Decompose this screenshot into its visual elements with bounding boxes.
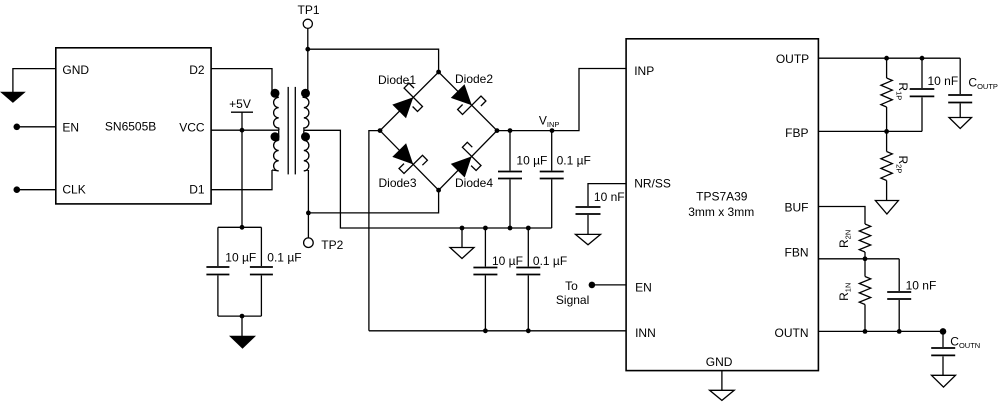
node bypass bottom junction [240, 314, 245, 319]
wire FBP rail [818, 130, 922, 132]
test point TP2 [304, 238, 344, 252]
svg-text:10 nF: 10 nF [594, 190, 625, 204]
svg-text:EN: EN [635, 281, 652, 295]
capacitor 10 uF (VINP to GND) [498, 131, 547, 228]
node OUTP junction 2 [920, 56, 925, 61]
node EN input terminal [13, 124, 20, 131]
wire NR/SS to cap [588, 184, 626, 206]
node CLK input terminal [13, 186, 20, 193]
wire GND pin stub [721, 371, 723, 390]
wire OUTN rail [818, 330, 943, 332]
svg-text:GND: GND [62, 63, 89, 77]
capacitor 0.1 uF (SN6505B bypass) [250, 227, 302, 316]
svg-text:To: To [565, 279, 578, 293]
transformer T1 core [287, 87, 289, 174]
svg-text:TP2: TP2 [321, 238, 343, 252]
wire bridge diamond edges [380, 72, 497, 190]
resistor R1P [881, 58, 910, 131]
node ground rail junction 4 [526, 226, 531, 231]
svg-text:SN6505B: SN6505B [105, 119, 156, 133]
node bypass rail junction [240, 225, 245, 230]
capacitor 0.1 uF (VINP to GND) [540, 131, 591, 228]
svg-text:VCC: VCC [179, 121, 205, 135]
node bridge bottom corner [436, 188, 441, 193]
wire BUF to R2N [818, 207, 865, 225]
capacitor 10 nF (FBN) [887, 259, 936, 332]
wire TP1 down to secondary top [307, 28, 309, 94]
svg-text:3mm x 3mm: 3mm x 3mm [688, 205, 754, 219]
node FBN junction [863, 256, 868, 261]
svg-text:FBN: FBN [785, 246, 809, 260]
node bridge top corner [436, 70, 441, 75]
resistor R2N [837, 224, 871, 259]
svg-text:Diode2: Diode2 [455, 72, 493, 86]
ground (signal) at NR/SS cap [576, 234, 601, 244]
test point TP1 [298, 3, 320, 29]
svg-text:0.1 µF: 0.1 µF [533, 254, 567, 268]
power +5V symbol [229, 97, 253, 130]
node ground rail junction 2 [483, 226, 488, 231]
svg-text:INP: INP [634, 64, 654, 78]
wire to bypass ground [241, 316, 243, 336]
resistor R2P [881, 131, 910, 200]
capacitor 10 uF (SN6505B bypass) [206, 227, 256, 316]
svg-text:Diode1: Diode1 [378, 73, 416, 87]
wire OUTP rail [818, 57, 960, 59]
node ground rail junction 1 [460, 226, 465, 231]
resistor R1N [837, 259, 871, 332]
svg-text:GND: GND [706, 355, 733, 369]
ground (signal) at TPS7A39 GND [710, 390, 735, 400]
svg-text:EN: EN [62, 121, 79, 135]
ground (power arrow) below bypass caps [229, 336, 256, 349]
node INN rail junction 2 [526, 328, 531, 333]
node EN terminal [589, 282, 596, 289]
wire secondary center tap to ground rail [304, 130, 462, 228]
ground (signal) at COUTP [949, 118, 972, 129]
node TP1 junction [305, 47, 310, 52]
node VINP [539, 113, 560, 128]
wire GND pin to ground [13, 69, 56, 92]
svg-text:D2: D2 [189, 63, 205, 77]
node FBP junction [884, 129, 889, 134]
svg-text:Diode3: Diode3 [379, 176, 417, 190]
op-amp U2 TPS7A39 box [626, 39, 818, 371]
wire CLK input stub [17, 189, 56, 191]
svg-text:10 µF: 10 µF [225, 250, 256, 264]
svg-text:INN: INN [635, 326, 656, 340]
ground (signal) at R2P [875, 201, 898, 215]
transformer T1 secondary winding [301, 89, 310, 171]
op-amp U1 SN6505B box [56, 48, 211, 204]
node To Signal label [556, 279, 589, 307]
ground (power arrow) at SN6505B GND [0, 92, 26, 103]
svg-text:Diode4: Diode4 [455, 176, 493, 190]
wire EN input stub [17, 126, 56, 128]
svg-text:10 nF: 10 nF [906, 279, 937, 293]
node INN rail junction 1 [483, 328, 488, 333]
node OUTP junction 1 [884, 56, 889, 61]
wire D1 to transformer primary bottom [211, 170, 272, 190]
diode Diode4 [451, 142, 494, 190]
ground (signal) at rail [450, 248, 474, 259]
node COUTN terminal [940, 328, 947, 335]
node bridge right corner [495, 128, 500, 133]
node bridge left corner [378, 128, 383, 133]
svg-text:OUTN: OUTN [775, 326, 809, 340]
svg-text:+5V: +5V [229, 97, 251, 111]
svg-text:TP1: TP1 [298, 3, 320, 17]
svg-text:FBP: FBP [785, 126, 808, 140]
wire ground rail [462, 227, 552, 229]
svg-text:10 µF: 10 µF [492, 254, 523, 268]
wire secondary bottom to bridge bottom corner [308, 190, 438, 213]
wire ground stub [461, 228, 463, 248]
diode Diode1 [378, 73, 423, 118]
capacitor 0.1 uF (GND to INN) [516, 228, 567, 331]
wire FBN rail [818, 258, 899, 260]
wire D2 to transformer primary top [211, 69, 272, 94]
node TP2 junction [306, 211, 311, 216]
svg-text:CLK: CLK [62, 183, 85, 197]
capacitor 10 nF (NR/SS) [576, 190, 625, 234]
capacitor COUTP [948, 58, 998, 117]
wire secondary bottom to TP2 [307, 170, 309, 238]
capacitor 10 uF (GND to INN) [473, 228, 523, 331]
node VINP rail junction 2 [550, 128, 555, 133]
wire VCC to +5V node and primary center tap [211, 129, 279, 131]
svg-text:Signal: Signal [556, 293, 589, 307]
svg-text:10 nF: 10 nF [928, 74, 959, 88]
node +5V junction on VCC wire [240, 128, 245, 133]
svg-text:0.1 µF: 0.1 µF [267, 250, 301, 264]
svg-text:TPS7A39: TPS7A39 [696, 189, 748, 203]
wire VINP rail from bridge right corner to INP [497, 69, 626, 131]
capacitor COUTN [931, 331, 980, 375]
diode Diode3 [379, 143, 428, 190]
svg-text:0.1 µF: 0.1 µF [557, 154, 591, 168]
node OUTN junction 2 [897, 329, 902, 334]
capacitor 10 nF (FBP) [910, 58, 958, 131]
wire EN input stub (TPS7A39) [592, 284, 626, 286]
svg-text:OUTP: OUTP [776, 52, 809, 66]
wire bridge left corner to INN rail [369, 131, 380, 331]
wire +5V node down to bypass caps [241, 130, 243, 227]
wire INN rail [369, 330, 626, 332]
node OUTN junction 1 [863, 329, 868, 334]
node VINP rail junction 1 [508, 128, 513, 133]
diode Diode2 [451, 72, 494, 115]
wire bypass cap top rail [218, 226, 262, 228]
wire bypass cap bottom rail [218, 315, 262, 317]
ground (signal) at COUTN [932, 375, 956, 387]
svg-text:NR/SS: NR/SS [634, 177, 671, 191]
svg-text:BUF: BUF [785, 200, 809, 214]
transformer T1 primary winding [271, 89, 280, 171]
node ground rail junction 3 [508, 226, 513, 231]
svg-text:D1: D1 [189, 183, 205, 197]
svg-text:10 µF: 10 µF [516, 154, 547, 168]
wire secondary top to bridge top corner [308, 49, 439, 72]
